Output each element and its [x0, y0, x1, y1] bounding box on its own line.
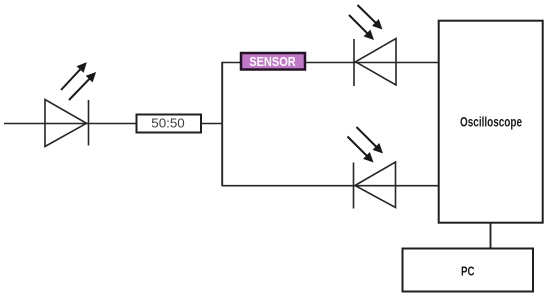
wire: input fiber from left edge to 50:50 splitter: [4, 123, 136, 125]
wire: oscilloscope to PC: [490, 223, 492, 248]
wire: lower branch to oscilloscope: [222, 185, 438, 187]
splitter box 50:50: [137, 115, 202, 133]
photodiode PD1 triangle: [356, 39, 397, 86]
wire: junction vertical: [221, 62, 223, 187]
incident light arrow 2 on PD1: [346, 12, 378, 44]
laser diode LD (triangle): [45, 100, 87, 147]
wire: splitter output to junction: [201, 123, 223, 125]
photodiode PD2 triangle: [355, 162, 396, 208]
sensor box SENSOR: [241, 53, 305, 70]
incident light arrow 1 on PD2: [353, 124, 386, 157]
photodiode PD1 cathode bar: [353, 39, 355, 86]
photodiode PD2 cathode bar: [353, 163, 355, 209]
oscilloscope box: [439, 21, 543, 223]
laser emission arrow 2: [66, 69, 100, 104]
PC box: [403, 249, 534, 292]
incident light arrow 2 on PD2: [344, 133, 377, 166]
svg-text:50:50: 50:50: [151, 117, 185, 131]
svg-text:SENSOR: SENSOR: [249, 54, 296, 69]
laser emission arrow 1: [57, 59, 90, 93]
wire: upper branch to oscilloscope: [222, 62, 438, 64]
laser diode cathode bar: [88, 100, 90, 146]
svg-text:Oscilloscope: Oscilloscope: [460, 114, 522, 130]
incident light arrow 1 on PD1: [354, 2, 386, 33]
svg-text:PC: PC: [461, 265, 475, 279]
